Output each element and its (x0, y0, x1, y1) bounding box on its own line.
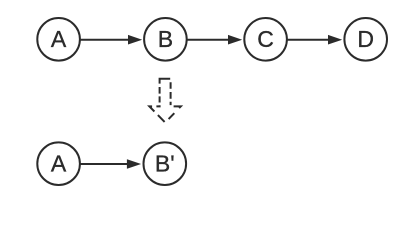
node D (344, 18, 387, 61)
node B' (144, 142, 187, 185)
svg-text:D: D (357, 26, 374, 52)
svg-text:A: A (51, 26, 67, 52)
node B (144, 18, 187, 61)
svg-text:B': B' (155, 151, 175, 177)
node C (244, 18, 287, 61)
svg-text:A: A (51, 151, 67, 177)
svg-text:C: C (257, 26, 274, 52)
wire A to B' (80, 159, 141, 169)
node A (second row) (37, 142, 80, 185)
wire A to B (80, 35, 142, 45)
wire B to C (187, 35, 242, 45)
node A (37, 18, 80, 61)
dashed block arrow from B down (149, 79, 180, 122)
svg-text:B: B (158, 26, 173, 52)
wire C to D (287, 35, 342, 45)
